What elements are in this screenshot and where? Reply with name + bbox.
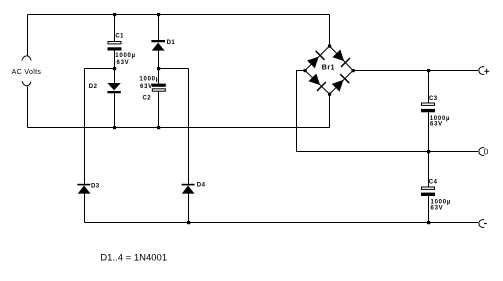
wire C4 top segment [428,152,430,188]
wire D4 to bottom rail [188,194,190,223]
wire D2 to rail [114,94,116,128]
svg-text:AC Volts: AC Volts [12,69,42,76]
label + [484,69,489,74]
svg-text:D2: D2 [89,84,98,90]
wire D3 upper line [84,69,86,185]
wire C2 to rail [158,92,160,128]
diode D4 [182,184,195,194]
AC source V1 symbol bottom chevron [22,81,31,86]
junction dot branch at D1 line [157,67,160,70]
svg-text:C4: C4 [429,179,438,185]
svg-text:D1..4 = 1N4001: D1..4 = 1N4001 [100,252,167,263]
terminal 0 output [479,148,484,156]
svg-text:63V: 63V [140,84,153,90]
wire C3 to mid rail [428,113,430,152]
svg-text:C3: C3 [429,96,438,102]
svg-text:D3: D3 [91,183,100,189]
svg-text:63V: 63V [431,206,444,212]
label - [484,223,487,225]
wire top rail [28,14,330,16]
svg-text:1000µ: 1000µ [139,76,160,82]
wire bridge left lead [297,71,306,152]
wire bridge bottom lead [329,94,331,128]
wire C1 top segment [114,15,116,42]
junction dot top rail at C1 [113,13,116,16]
svg-text:0: 0 [484,147,489,156]
junction dot mid-upper rail at C2 line [157,126,160,129]
wire C3 top segment [428,71,430,104]
wire C1 to D2 [114,51,116,84]
wire D4 upper line [188,69,190,185]
svg-text:C1: C1 [115,34,124,40]
svg-text:63V: 63V [430,122,443,128]
wire C4 to bottom rail [428,196,430,223]
junction dot plus rail at C3 line [427,69,430,72]
wire mid output rail [297,151,479,153]
wire branch to D4 line [159,68,189,70]
junction dot bottom rail at C4 line [427,221,430,224]
junction dot branch at C1 line [113,67,116,70]
capacitor C2 [152,84,166,92]
wire mid-upper rail (AC to bridge bottom) [28,127,330,129]
junction dot top rail at D1 [157,13,160,16]
svg-text:Br1: Br1 [322,65,335,72]
wire branch to D3 line [85,68,115,70]
bridge rectifier Br1 diamond outline [305,46,353,94]
wire bridge right lead (+ rail) [353,70,478,72]
junction dot mid rail at C4 line [427,150,430,153]
svg-text:1000µ: 1000µ [115,53,136,59]
capacitor C1 [108,42,122,51]
svg-text:63V: 63V [117,60,130,66]
terminal + output [479,67,484,75]
diode D3 [77,184,90,194]
wire D1 to C2 [158,51,160,84]
wire AC source top lead [27,15,29,57]
svg-text:D1: D1 [167,40,176,46]
wire bottom rail [85,222,479,224]
wire bridge top lead [329,15,331,47]
bridge diode top-right (points to right corner) [332,49,351,68]
diode D1 [151,40,165,51]
junction dot bottom rail at D4 line [187,221,190,224]
junction dot mid-upper rail at D2 line [113,126,116,129]
junction dot bridge right corner [352,69,355,72]
wire D3 to bottom rail [84,194,86,223]
junction dot bridge top corner [328,45,331,48]
svg-text:1000µ: 1000µ [431,199,452,205]
diode D2 [107,83,120,93]
junction dot bridge left corner [304,69,307,72]
terminal - output [479,220,484,228]
wire D1 top segment [158,15,160,41]
bridge diode bottom-right (points to right corner) [331,74,350,93]
capacitor C3 [421,103,435,112]
bridge diode bottom-left (points to bottom corner) [308,73,327,92]
AC source V1 symbol top chevron [22,56,31,61]
junction dot bridge bottom corner [328,93,331,96]
wire AC source bottom lead [27,87,29,128]
svg-text:D4: D4 [197,183,206,189]
capacitor C4 [421,187,435,196]
svg-text:C2: C2 [143,95,152,101]
bridge diode top-left (points to top corner) [307,50,326,69]
